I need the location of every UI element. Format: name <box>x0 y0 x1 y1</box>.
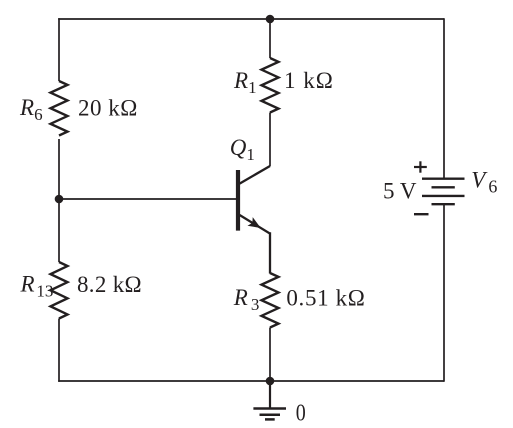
svg-text:5 V: 5 V <box>383 179 417 204</box>
svg-text:20 kΩ: 20 kΩ <box>78 96 138 121</box>
svg-text:1 kΩ: 1 kΩ <box>284 68 334 93</box>
svg-text:0: 0 <box>296 401 306 427</box>
svg-text:8.2 kΩ: 8.2 kΩ <box>77 272 142 297</box>
svg-text:0.51 kΩ: 0.51 kΩ <box>286 286 365 311</box>
